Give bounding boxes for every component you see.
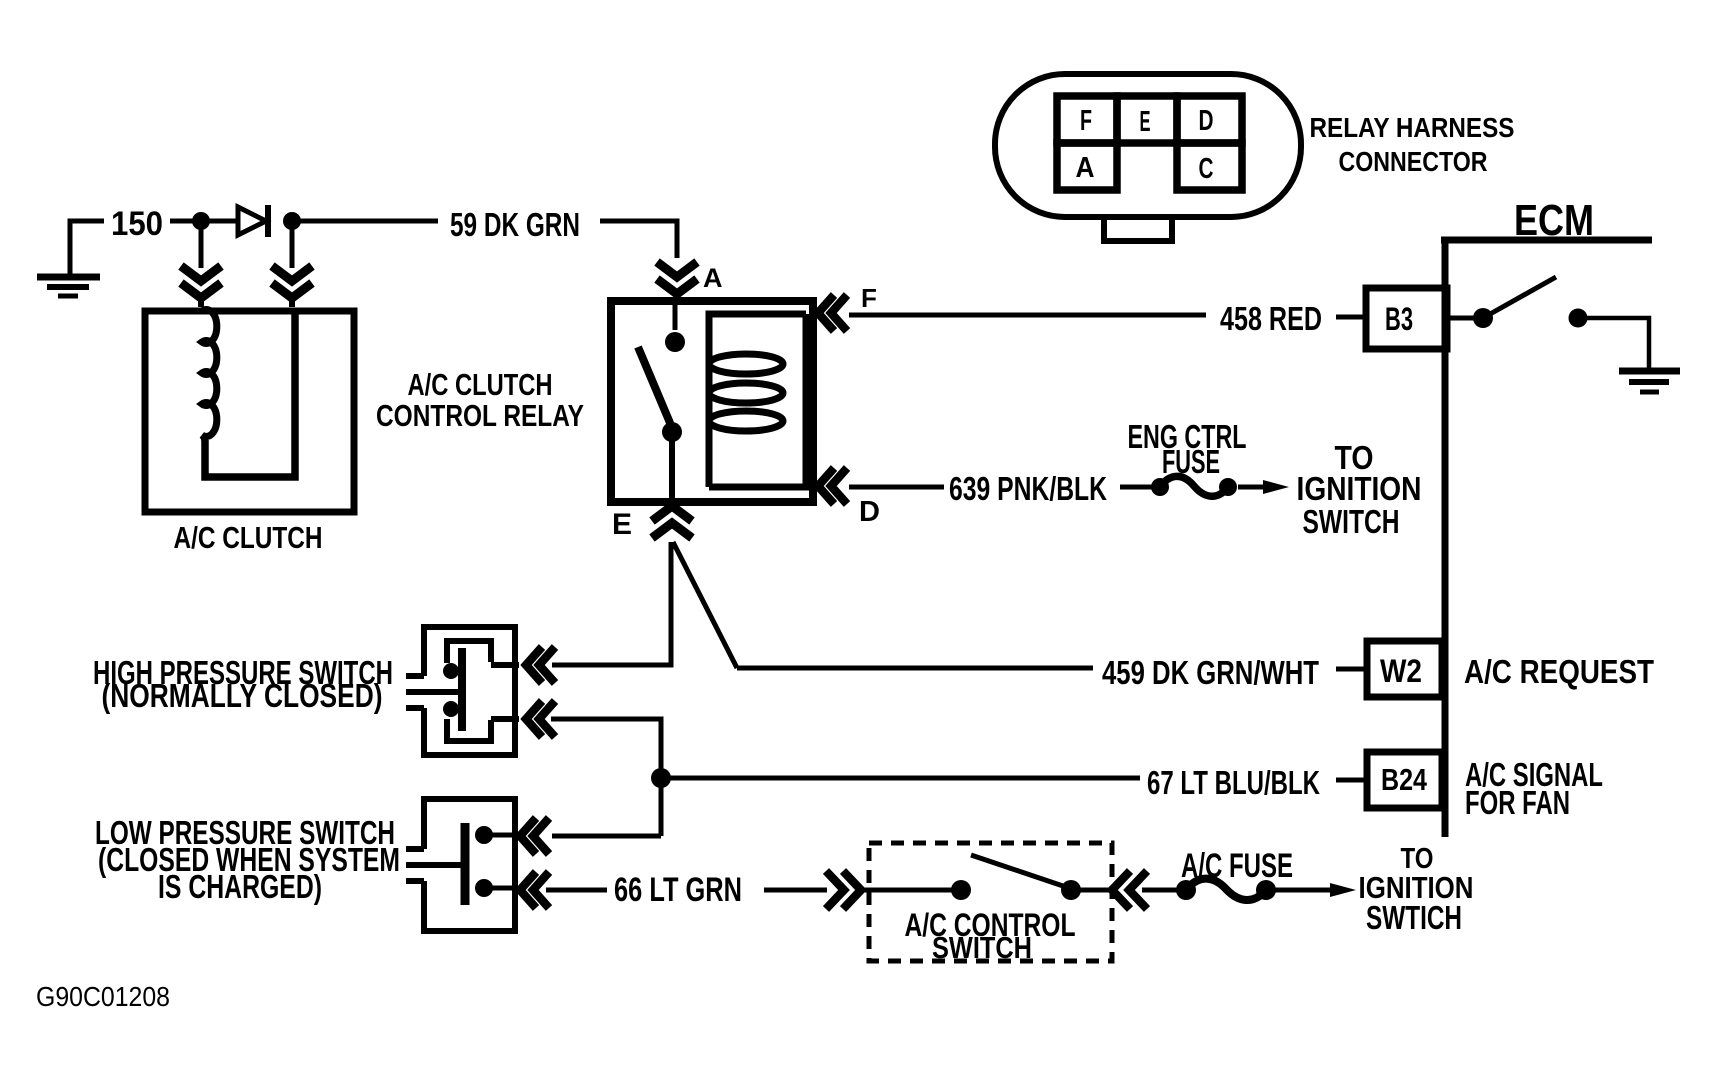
relay coil winding ellipse 2 <box>709 383 783 403</box>
connector cell D <box>1177 96 1242 143</box>
wire J3 to low pressure switch upper <box>552 834 661 839</box>
node J3 (junction dot on 67 line) <box>651 768 671 788</box>
svg-text:B3: B3 <box>1385 301 1413 337</box>
connector key tab <box>1104 217 1172 241</box>
relay fixed contact dot <box>665 332 685 352</box>
svg-text:66 LT GRN: 66 LT GRN <box>614 871 742 909</box>
svg-text:(NORMALLY CLOSED): (NORMALLY CLOSED) <box>102 677 383 714</box>
wire 459 DK GRN/WHT <box>737 666 1093 671</box>
label HIGH PRESSURE SWITCH (NORMALLY CLOSED) <box>93 654 393 714</box>
node J2 (junction dot right of diode) <box>283 212 301 230</box>
svg-text:F: F <box>861 283 877 313</box>
svg-text:A: A <box>703 263 723 293</box>
svg-text:A: A <box>1076 152 1095 184</box>
relay K1 case box <box>611 301 813 502</box>
wire E to high pressure switch <box>552 542 671 665</box>
A/C control switch S3 dashed box <box>869 843 1112 961</box>
arrow to ignition switch (mid) <box>1238 480 1289 494</box>
relay pin A internal lead <box>673 305 678 330</box>
wire 458 RED into B3 <box>1336 315 1366 320</box>
relay arm lead to pin E <box>669 432 675 502</box>
ECM terminal B24 box <box>1367 752 1442 808</box>
connector terminal chevrons relay pin E <box>652 506 692 538</box>
svg-text:W2: W2 <box>1380 653 1422 689</box>
svg-text:SWITCH: SWITCH <box>932 930 1032 965</box>
label ENG CTRL FUSE <box>1128 418 1247 480</box>
relay switch arm <box>638 347 673 430</box>
connector terminal chevrons control switch right <box>1112 871 1147 909</box>
control switch left contact dot <box>951 880 971 900</box>
connector cell C <box>1177 143 1242 190</box>
svg-text:IS CHARGED): IS CHARGED) <box>158 868 322 905</box>
svg-text:59 DK GRN: 59 DK GRN <box>450 206 580 243</box>
high pressure switch S1 contacts <box>447 641 519 741</box>
wire 458 RED from F <box>849 313 1206 318</box>
wire HP lower to junction J3 <box>551 719 661 836</box>
svg-text:A/C CLUTCH: A/C CLUTCH <box>174 520 323 555</box>
connector terminal chevrons HP switch lower <box>526 701 555 737</box>
connector terminal chevrons relay pin A <box>657 262 697 303</box>
wire to A/C fuse <box>1142 888 1182 893</box>
A/C fuse F2 <box>1176 879 1276 900</box>
svg-text:F: F <box>1080 105 1092 137</box>
diode CR1 <box>238 205 268 237</box>
svg-text:SWTICH: SWTICH <box>1366 899 1462 936</box>
label A/C CLUTCH CONTROL RELAY <box>376 367 584 433</box>
node J1 (junction dot left of diode) <box>192 212 210 230</box>
control switch right contact dot <box>1061 880 1081 900</box>
connector terminal chevrons into A/C clutch (right) <box>272 266 312 307</box>
svg-text:A/C FUSE: A/C FUSE <box>1181 847 1293 885</box>
svg-text:639 PNK/BLK: 639 PNK/BLK <box>949 470 1107 507</box>
wire J2 to label 59 <box>292 219 438 224</box>
svg-text:IGNITION: IGNITION <box>1297 470 1422 507</box>
svg-text:SWITCH: SWITCH <box>1303 503 1400 540</box>
svg-text:CONTROL RELAY: CONTROL RELAY <box>376 398 584 433</box>
svg-text:150: 150 <box>111 205 163 243</box>
low pressure switch S2 contact bar <box>461 823 470 905</box>
svg-text:CONNECTOR: CONNECTOR <box>1339 146 1488 177</box>
connector cell F <box>1057 96 1117 143</box>
relay moving contact dot <box>662 422 682 442</box>
connector terminal chevrons LP switch upper <box>520 818 549 854</box>
wire into fuse <box>1120 485 1155 490</box>
svg-text:E: E <box>1140 106 1151 138</box>
A/C clutch case box <box>145 311 354 512</box>
wire J1 drop to clutch <box>199 221 204 268</box>
wire J2 drop to clutch <box>290 221 295 268</box>
label TO IGNITION SWITCH (mid) <box>1297 439 1422 540</box>
ECM terminal B3 box <box>1366 288 1447 349</box>
svg-text:D: D <box>859 496 880 528</box>
relay coil winding ellipse 1 <box>709 354 783 374</box>
svg-text:459 DK GRN/WHT: 459 DK GRN/WHT <box>1102 654 1319 691</box>
svg-text:RELAY HARNESS: RELAY HARNESS <box>1310 112 1515 143</box>
low pressure switch S2 body <box>406 799 515 931</box>
svg-text:C: C <box>1199 153 1214 185</box>
relay coil winding ellipse 3 <box>709 411 783 431</box>
connector terminal chevrons into A/C clutch (left) <box>181 266 221 307</box>
connector terminal chevrons into control switch <box>826 871 861 909</box>
connector terminal chevrons HP switch upper <box>526 647 555 683</box>
connector terminal chevrons LP switch lower <box>520 872 549 908</box>
wire 67 LT BLU/BLK <box>661 776 1140 781</box>
wire E diagonal to 459 <box>673 542 737 668</box>
connector cell A <box>1057 143 1117 190</box>
ground G1 (left battery ground) <box>37 221 104 296</box>
label TO IGNITION SWTICH (bottom) <box>1359 843 1474 936</box>
svg-text:B24: B24 <box>1381 762 1428 797</box>
wire 459 into W2 <box>1336 667 1367 672</box>
ground G2 (ECM internal) <box>1619 371 1680 392</box>
ECM internal switch <box>1447 277 1649 369</box>
svg-text:67 LT BLU/BLK: 67 LT BLU/BLK <box>1147 764 1320 801</box>
arrow to ignition switch (bottom) <box>1274 883 1356 897</box>
relay coil inner box <box>709 314 806 487</box>
svg-text:A/C CLUTCH: A/C CLUTCH <box>408 367 553 402</box>
wire 66 to control switch <box>764 888 827 893</box>
ECM boundary line <box>1441 237 1652 244</box>
wire 59 DK GRN to relay pin A <box>600 221 677 258</box>
svg-text:FUSE: FUSE <box>1162 443 1220 480</box>
relay harness connector J10 outline <box>995 74 1301 217</box>
wire 150 to node J1 <box>170 219 238 224</box>
connector terminal chevrons relay pin F <box>818 295 847 331</box>
ENG CTRL fuse F1 <box>1151 476 1237 496</box>
svg-text:458 RED: 458 RED <box>1220 300 1322 337</box>
svg-text:A/C REQUEST: A/C REQUEST <box>1464 653 1654 690</box>
high pressure switch S1 body <box>406 627 515 755</box>
svg-text:G90C01208: G90C01208 <box>36 981 170 1012</box>
wire 67 into B24 <box>1336 778 1367 783</box>
control switch right lead <box>1071 888 1112 893</box>
A/C clutch coil L1 <box>202 310 295 478</box>
low pressure switch contact leads <box>484 833 517 838</box>
svg-text:FOR FAN: FOR FAN <box>1465 784 1570 821</box>
wire 639 from D <box>849 485 944 490</box>
wire LP lower to 66 label <box>546 888 607 893</box>
ECM terminal W2 box <box>1367 641 1442 697</box>
svg-text:E: E <box>612 508 632 541</box>
connector terminal chevrons relay pin D <box>818 468 847 504</box>
label LOW PRESSURE SWITCH (CLOSED WHEN SYSTEM IS CHARGED) <box>95 814 400 905</box>
svg-text:D: D <box>1199 105 1214 137</box>
label A/C CONTROL SWITCH <box>905 907 1076 965</box>
control switch arm <box>971 855 1066 887</box>
label RELAY HARNESS CONNECTOR <box>1310 112 1515 177</box>
label A/C SIGNAL FOR FAN <box>1465 756 1603 821</box>
connector cell E <box>1117 96 1177 143</box>
control switch left lead <box>856 888 953 893</box>
connector pin letters <box>1076 105 1214 185</box>
